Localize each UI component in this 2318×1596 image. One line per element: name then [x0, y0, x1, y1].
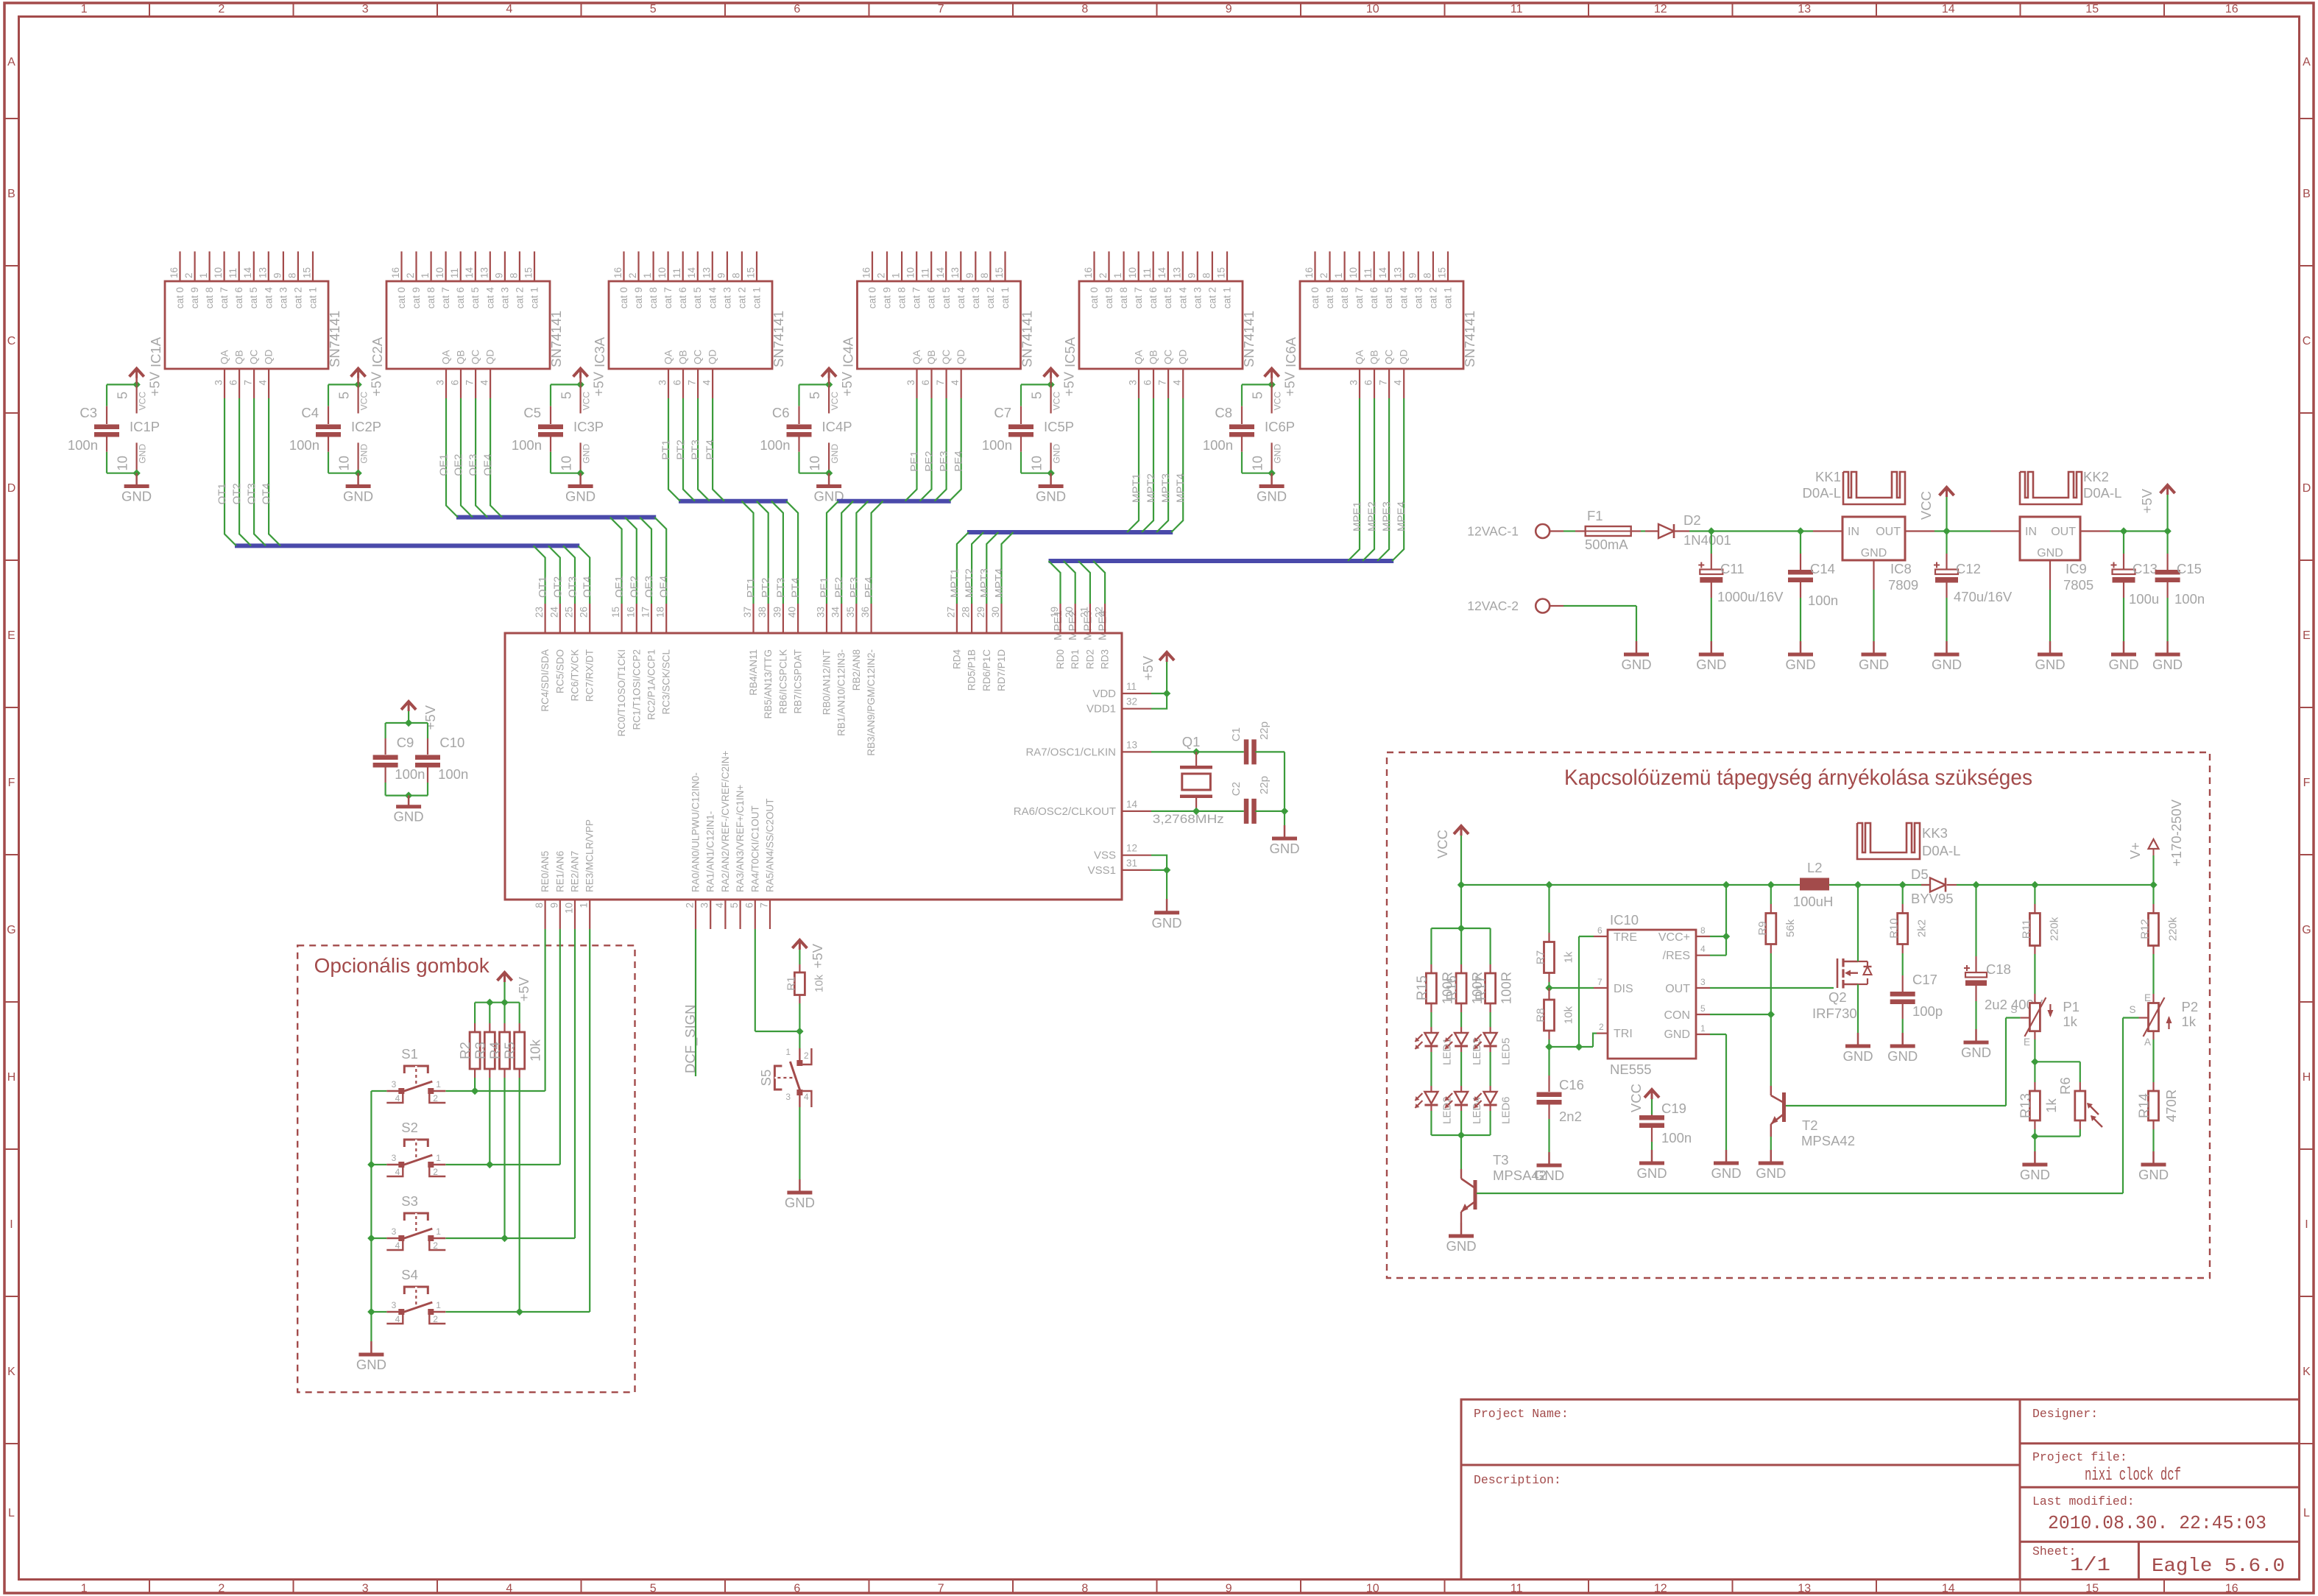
- svg-text:RC5/SDO: RC5/SDO: [554, 649, 565, 693]
- MCU U1 PIC18F (main microcontroller): [505, 633, 1122, 900]
- svg-text:7809: 7809: [1888, 577, 1918, 593]
- svg-text:VCC: VCC: [1918, 491, 1934, 520]
- transistor T2 MPSA42: [1770, 1086, 1772, 1095]
- svg-text:cat 0: cat 0: [1089, 287, 1100, 308]
- wire C1 to C2 right leg: [1255, 751, 1285, 752]
- svg-text:1N4001: 1N4001: [1683, 532, 1731, 548]
- svg-text:4: 4: [702, 380, 713, 386]
- svg-text:IC5P: IC5P: [1044, 419, 1074, 434]
- wire TRE feedback: [1578, 936, 1580, 1047]
- IC10 pin 7 DIS: [1594, 987, 1608, 989]
- svg-text:R10: R10: [1888, 918, 1901, 939]
- svg-text:P2: P2: [2182, 999, 2199, 1014]
- svg-text:14: 14: [464, 266, 475, 278]
- wire OE2 from IC2A QB: [461, 398, 473, 518]
- wire IC8 OUT to VCC node: [1905, 530, 1934, 532]
- wire MPE4 from IC6A QD: [1392, 398, 1404, 561]
- svg-text:E: E: [7, 629, 15, 642]
- svg-text:1k: 1k: [2063, 1014, 2077, 1029]
- svg-text:6: 6: [1597, 925, 1603, 936]
- svg-text:6: 6: [743, 903, 755, 908]
- wire pin13 OSC1 to crystal Q1: [1151, 751, 1244, 752]
- resistor R11 220k: [2034, 885, 2035, 904]
- svg-text:cat 4: cat 4: [1398, 287, 1409, 309]
- svg-text:cat 6: cat 6: [926, 287, 937, 308]
- MCU bottom pin 7 RA5/AN4/SS/C2OUT: [769, 900, 771, 929]
- dashed box Opcionalis gombok: [297, 945, 635, 1392]
- svg-text:10: 10: [213, 267, 224, 278]
- svg-text:15: 15: [746, 267, 757, 278]
- svg-text:OE2: OE2: [628, 576, 640, 598]
- wire PT1 from IC3A QA: [668, 398, 680, 501]
- MCU top pin 17 RC2/P1A/CCP1: [651, 604, 652, 633]
- svg-text:13: 13: [1171, 267, 1182, 278]
- svg-text:10: 10: [657, 267, 668, 278]
- voltage regulator IC8 7809: [1813, 530, 1842, 532]
- switch S4: [386, 1311, 400, 1313]
- svg-text:cat 6: cat 6: [1368, 287, 1379, 308]
- wire OT4 from IC1A QD: [269, 398, 280, 545]
- svg-text:+5V: +5V: [591, 371, 607, 396]
- svg-text:3: 3: [213, 380, 225, 386]
- svg-text:cat 3: cat 3: [970, 287, 981, 308]
- svg-text:16: 16: [625, 607, 636, 618]
- svg-text:5: 5: [807, 392, 822, 399]
- wire MPE4 to MCU pin 22: [1093, 561, 1105, 604]
- MCU top pin 18 RC3/SCK/SCL: [665, 604, 667, 633]
- svg-text:IC1P: IC1P: [130, 419, 160, 434]
- svg-text:OT3: OT3: [567, 576, 579, 598]
- bus PT1..PT4 (blue): [679, 499, 788, 504]
- svg-text:1k: 1k: [2043, 1098, 2059, 1112]
- svg-text:15: 15: [994, 267, 1005, 278]
- node +5V junction IC3P: [576, 381, 584, 388]
- MCU bottom pin 6 RA4/T0CKI/C1OUT: [755, 900, 756, 929]
- svg-text:cat 4: cat 4: [484, 287, 495, 309]
- svg-text:KK1: KK1: [1815, 469, 1841, 484]
- svg-text:L2: L2: [1807, 860, 1823, 875]
- svg-text:GND: GND: [1932, 657, 1962, 672]
- svg-text:cat 9: cat 9: [633, 287, 644, 308]
- node +5V junction IC1P: [132, 381, 140, 388]
- frame column ticks and numbers: [149, 3, 150, 17]
- svg-text:11: 11: [671, 268, 682, 278]
- svg-text:3: 3: [392, 1153, 397, 1163]
- svg-text:Kapcsolóüzemü tápegység árnyék: Kapcsolóüzemü tápegység árnyékolása szük…: [1564, 766, 2032, 790]
- svg-text:cat 1: cat 1: [752, 287, 763, 308]
- svg-text:PE3: PE3: [848, 577, 861, 598]
- potentiometer P1 1k: [2034, 954, 2035, 994]
- svg-text:cat 2: cat 2: [736, 287, 747, 308]
- svg-text:cat 7: cat 7: [219, 287, 230, 308]
- svg-text:12VAC-2: 12VAC-2: [1467, 598, 1519, 613]
- ground symbol for C17: [1901, 1033, 1904, 1046]
- svg-text:PT3: PT3: [774, 577, 787, 598]
- wire OE1 from IC2A QA: [446, 398, 458, 518]
- svg-text:2: 2: [804, 1051, 809, 1061]
- pin 10 GND of IC3P: [579, 442, 581, 473]
- svg-text:1: 1: [642, 272, 653, 278]
- svg-text:SN74141: SN74141: [548, 311, 564, 367]
- svg-text:4: 4: [506, 3, 512, 15]
- svg-text:8: 8: [979, 272, 990, 278]
- svg-text:cat 8: cat 8: [204, 287, 215, 308]
- MCU top pin 30 RD7/P1D: [1000, 604, 1002, 633]
- svg-text:+5V: +5V: [839, 371, 855, 396]
- wire P2 wiper to T3 base: [2123, 1017, 2139, 1018]
- svg-text:C1: C1: [1230, 727, 1243, 741]
- svg-text:2: 2: [218, 1583, 225, 1595]
- wire 12VAC-2 to GND: [1563, 605, 1636, 607]
- svg-text:cat 1: cat 1: [1000, 287, 1011, 308]
- svg-text:RC1/T1OSI/CCP2: RC1/T1OSI/CCP2: [631, 649, 642, 730]
- svg-text:VSS1: VSS1: [1088, 864, 1116, 877]
- MCU top pin 23 RC4/SDI/SDA: [544, 604, 545, 633]
- svg-text:GND: GND: [2108, 657, 2138, 672]
- MCU bottom pin 5 RA3/AN3/VREF+/C1IN+: [739, 900, 741, 929]
- svg-text:D: D: [2303, 482, 2311, 495]
- svg-text:33: 33: [816, 607, 827, 618]
- svg-text:RB2/AN8: RB2/AN8: [851, 649, 862, 691]
- svg-text:E: E: [2144, 992, 2151, 1003]
- svg-text:A: A: [2303, 56, 2311, 68]
- svg-text:L: L: [8, 1507, 15, 1519]
- IC10 pin 8 VCC+: [1696, 936, 1710, 937]
- wire PT4 from IC3A QD: [713, 398, 724, 501]
- svg-text:2n2: 2n2: [1559, 1109, 1582, 1124]
- svg-text:+5V: +5V: [369, 371, 384, 396]
- wire +5V to C9 and C10: [386, 722, 428, 724]
- svg-text:cat 8: cat 8: [1339, 287, 1350, 308]
- ground symbol for IC3P: [579, 473, 582, 485]
- capacitor C15 100n: [2167, 532, 2169, 554]
- svg-text:cat 5: cat 5: [1162, 287, 1173, 308]
- svg-text:29: 29: [975, 607, 986, 618]
- svg-text:1k: 1k: [1563, 951, 1575, 963]
- title block frame: [1461, 1399, 2300, 1580]
- svg-text:C11: C11: [1720, 561, 1745, 576]
- svg-text:4: 4: [479, 380, 490, 386]
- svg-text:7: 7: [243, 380, 254, 386]
- svg-text:10k: 10k: [813, 974, 825, 992]
- svg-text:10: 10: [807, 456, 822, 471]
- svg-text:cat 3: cat 3: [721, 287, 732, 308]
- MCU right pin 14 RA6/OSC2/CLKOUT: [1122, 811, 1151, 812]
- svg-text:17: 17: [640, 607, 651, 618]
- wire IC10 GND pin to ground: [1710, 1034, 1726, 1035]
- svg-text:OT3: OT3: [246, 483, 258, 504]
- svg-text:RA4/T0CKI/C1OUT: RA4/T0CKI/C1OUT: [749, 805, 760, 892]
- svg-text:MPE2: MPE2: [1366, 501, 1379, 532]
- LED LED4: [1460, 1052, 1462, 1086]
- wire capacitor C7 to GND: [1020, 452, 1022, 473]
- svg-text:PE1: PE1: [908, 451, 921, 471]
- svg-text:6: 6: [794, 3, 800, 15]
- svg-text:DCF_SIGN: DCF_SIGN: [682, 1004, 699, 1073]
- wire +5V to capacitor C3: [107, 384, 137, 385]
- svg-text:3: 3: [1349, 380, 1360, 386]
- svg-text:4: 4: [395, 1240, 400, 1251]
- resistor R1 10k: [799, 964, 800, 972]
- svg-text:C6: C6: [772, 405, 790, 420]
- potentiometer P2 1k: [2152, 954, 2154, 994]
- wire +5V to capacitor C8: [1242, 384, 1272, 385]
- svg-text:RA6/OSC2/CLKOUT: RA6/OSC2/CLKOUT: [1014, 805, 1116, 818]
- svg-text:R11: R11: [2020, 919, 2032, 939]
- capacitor C9 100n: [384, 738, 386, 755]
- svg-text:14: 14: [1126, 799, 1138, 810]
- svg-text:GND: GND: [1534, 1168, 1564, 1183]
- svg-text:C2: C2: [1230, 782, 1243, 796]
- svg-text:QC: QC: [941, 349, 952, 364]
- svg-text:6: 6: [1363, 380, 1374, 386]
- capacitor C8 100n: [1241, 406, 1243, 424]
- svg-text:9: 9: [964, 272, 975, 278]
- svg-text:cat 4: cat 4: [263, 287, 274, 309]
- ground symbol for C14: [1800, 641, 1802, 654]
- wire OT1 from IC1A QA: [225, 398, 236, 545]
- svg-text:100n: 100n: [1203, 437, 1233, 453]
- ground symbol for R14: [2152, 1151, 2155, 1165]
- svg-text:cat 8: cat 8: [648, 287, 659, 308]
- svg-text:19: 19: [1049, 607, 1060, 618]
- svg-text:C17: C17: [1912, 972, 1937, 987]
- svg-text:E: E: [2024, 1037, 2030, 1048]
- svg-text:470R: 470R: [2163, 1090, 2179, 1122]
- svg-text:R5: R5: [502, 1042, 517, 1059]
- svg-text:PT4: PT4: [790, 577, 802, 598]
- svg-text:R12: R12: [2139, 919, 2152, 939]
- svg-text:V+: V+: [2127, 842, 2143, 859]
- svg-text:OT2: OT2: [551, 576, 564, 598]
- svg-text:23: 23: [534, 607, 545, 618]
- power +5V flag for MCU VDD: [1159, 652, 1174, 660]
- svg-text:100R: 100R: [1499, 972, 1514, 1004]
- svg-text:1: 1: [1333, 272, 1344, 278]
- svg-text:3: 3: [657, 380, 668, 386]
- svg-text:GND: GND: [1269, 841, 1299, 856]
- svg-text:cat 7: cat 7: [1354, 287, 1365, 308]
- svg-text:12: 12: [1126, 843, 1137, 854]
- svg-text:Designer:: Designer:: [2032, 1407, 2098, 1421]
- svg-text:16: 16: [2225, 1583, 2239, 1595]
- svg-text:+5V: +5V: [1140, 655, 1156, 680]
- node GND junction IC3P: [576, 470, 584, 477]
- ground symbol for IC2P: [357, 473, 359, 485]
- svg-text:2k2: 2k2: [1916, 919, 1929, 937]
- svg-text:cat 1: cat 1: [529, 287, 540, 308]
- wire S5 to GND: [799, 1107, 800, 1179]
- svg-text:RC7/RX/DT: RC7/RX/DT: [584, 649, 596, 702]
- svg-text:BYV95: BYV95: [1911, 891, 1954, 906]
- MCU bottom pin 4 RA2/AN2/VREF-/CVREF/C2IN+: [724, 900, 726, 929]
- power +5V flag for IC1A: [130, 369, 144, 377]
- svg-text:4: 4: [395, 1314, 400, 1324]
- svg-text:4: 4: [714, 903, 725, 908]
- wire pin8/pin4 to VCC rail: [1710, 936, 1726, 937]
- svg-text:cat 2: cat 2: [1427, 287, 1438, 308]
- svg-text:7: 7: [935, 380, 946, 386]
- MCU bottom pin 3 RA1/AN1/C12IN1-: [710, 900, 711, 929]
- pin 10 GND of IC1P: [136, 442, 138, 473]
- svg-text:QC: QC: [249, 349, 260, 364]
- svg-text:cat 6: cat 6: [677, 287, 688, 308]
- svg-text:25: 25: [564, 607, 575, 618]
- svg-text:PT3: PT3: [690, 439, 702, 460]
- wire S2 row: [371, 1164, 386, 1165]
- svg-text:cat 0: cat 0: [618, 287, 629, 308]
- svg-text:2: 2: [1599, 1022, 1604, 1032]
- ground symbol for IC5P: [1050, 473, 1052, 485]
- svg-text:B: B: [7, 188, 15, 200]
- svg-text:R17: R17: [1473, 975, 1488, 1000]
- svg-text:GND: GND: [785, 1195, 815, 1210]
- IC IC3A SN74141 nixie driver: [609, 281, 772, 369]
- svg-text:RE3/MCLR/VPP: RE3/MCLR/VPP: [584, 819, 596, 892]
- svg-text:RE1/AN6: RE1/AN6: [554, 851, 565, 892]
- MCU top pin 15 RC0/T1OSO/T1CKI: [621, 604, 622, 633]
- wire F1 to D2: [1641, 530, 1645, 532]
- svg-text:4: 4: [804, 1092, 809, 1102]
- heatsink KK1 D0A-L: [1843, 472, 1905, 504]
- svg-text:RD5/P1B: RD5/P1B: [967, 649, 978, 691]
- wire PE3 from IC4A QC: [935, 398, 947, 501]
- svg-text:S1: S1: [401, 1046, 418, 1062]
- svg-text:Last modified:: Last modified:: [2032, 1494, 2135, 1508]
- svg-text:D0A-L: D0A-L: [1922, 843, 1960, 858]
- svg-text:22p: 22p: [1258, 776, 1271, 794]
- svg-text:QC: QC: [1163, 349, 1174, 364]
- svg-text:RB6/ICSPCLK: RB6/ICSPCLK: [777, 649, 788, 714]
- wire PE4 to MCU pin 36: [872, 501, 883, 604]
- svg-text:MPE3: MPE3: [1381, 501, 1393, 532]
- svg-text:nixi clock dcf: nixi clock dcf: [2085, 1466, 2181, 1486]
- wire OT4 to MCU pin 26: [578, 545, 590, 604]
- svg-text:E: E: [2303, 629, 2311, 642]
- svg-text:VCC: VCC: [582, 392, 592, 411]
- svg-text:2: 2: [433, 1240, 438, 1251]
- svg-text:cat 0: cat 0: [867, 287, 878, 308]
- MCU top pin 38 RB5/AN13/TTG: [768, 604, 769, 633]
- capacitor C5 100n: [550, 406, 551, 424]
- svg-text:11: 11: [920, 268, 931, 278]
- pin 5 VCC of IC6P: [1271, 378, 1273, 384]
- svg-text:36: 36: [860, 607, 871, 618]
- svg-text:12: 12: [1654, 3, 1667, 15]
- svg-text:RD0: RD0: [1055, 649, 1066, 669]
- IC10 pin 1 GND: [1696, 1034, 1710, 1035]
- svg-text:SN74141: SN74141: [1020, 311, 1035, 367]
- wire C14 to IC8 IN: [1801, 530, 1813, 532]
- wire VSS to GND: [1151, 855, 1167, 870]
- MCU top pin 26 RC7/RX/DT: [589, 604, 590, 633]
- svg-text:7: 7: [938, 1583, 944, 1595]
- svg-text:1: 1: [579, 903, 590, 908]
- svg-text:RD3: RD3: [1100, 649, 1111, 669]
- svg-text:cat 2: cat 2: [985, 287, 996, 308]
- capacitor C14 100n: [1800, 532, 1801, 554]
- svg-text:5: 5: [336, 392, 352, 399]
- svg-text:100n: 100n: [438, 766, 468, 782]
- ground symbol for IC4P: [828, 473, 830, 485]
- wire MPE2 from IC6A QB: [1363, 398, 1374, 561]
- svg-text:2: 2: [405, 272, 416, 278]
- svg-text:16: 16: [1083, 267, 1094, 278]
- svg-text:6: 6: [1142, 380, 1153, 386]
- wire T3 base to P2 wiper: [1477, 1193, 2123, 1194]
- svg-text:SN74141: SN74141: [1462, 311, 1477, 367]
- svg-text:QA: QA: [219, 350, 230, 364]
- svg-text:GND: GND: [2037, 547, 2063, 559]
- wire R14 to ground: [2152, 1129, 2154, 1151]
- svg-text:R14: R14: [2136, 1093, 2152, 1118]
- svg-text:R4: R4: [487, 1042, 503, 1059]
- ground symbol for IC1P: [135, 473, 138, 485]
- wire Q2 source to ground: [1857, 984, 1859, 1033]
- wire PT4 to MCU pin 40: [786, 501, 798, 604]
- svg-text:3: 3: [392, 1226, 397, 1237]
- svg-text:13: 13: [478, 267, 490, 278]
- svg-text:IC1A: IC1A: [148, 336, 163, 367]
- node GND junction IC4P: [825, 470, 833, 477]
- svg-text:cat 9: cat 9: [882, 287, 893, 308]
- svg-text:100n: 100n: [289, 437, 319, 453]
- svg-text:RB5/AN13/TTG: RB5/AN13/TTG: [763, 649, 774, 719]
- bus MPT1..MPT4 (blue): [967, 530, 1173, 534]
- svg-text:QD: QD: [1399, 349, 1410, 364]
- svg-text:7: 7: [1378, 380, 1389, 386]
- svg-text:15: 15: [302, 267, 313, 278]
- connector pad 12VAC-1: [1536, 524, 1550, 538]
- svg-text:cat 6: cat 6: [455, 287, 466, 308]
- svg-text:OUT: OUT: [1876, 526, 1901, 538]
- svg-text:VCC: VCC: [830, 392, 840, 411]
- svg-text:VCC: VCC: [1628, 1084, 1644, 1112]
- svg-text:VCC: VCC: [138, 392, 148, 411]
- wire PE4 from IC4A QD: [950, 398, 961, 501]
- svg-text:RD2: RD2: [1084, 649, 1095, 669]
- switch S5: [799, 1031, 800, 1048]
- svg-text:500mA: 500mA: [1585, 537, 1628, 552]
- svg-text:LED5: LED5: [1500, 1037, 1513, 1065]
- svg-text:22: 22: [1094, 607, 1105, 618]
- svg-text:IC5A: IC5A: [1062, 336, 1078, 367]
- svg-text:6: 6: [794, 1583, 800, 1595]
- svg-text:VCC+: VCC+: [1658, 931, 1690, 944]
- svg-text:T3: T3: [1493, 1152, 1509, 1168]
- svg-text:GND: GND: [1052, 444, 1062, 464]
- svg-text:9: 9: [1407, 272, 1418, 278]
- svg-text:14: 14: [935, 266, 946, 278]
- wire MCU pin 1 to S4: [589, 929, 590, 1312]
- svg-text:GND: GND: [1961, 1045, 1991, 1060]
- IC10 pin 6 TRE: [1594, 936, 1608, 937]
- resistor R7 1k: [1548, 885, 1550, 933]
- svg-text:GND: GND: [394, 809, 424, 825]
- wire PE1 from IC4A QA: [905, 398, 917, 501]
- svg-text:NE555: NE555: [1610, 1062, 1652, 1077]
- svg-text:100u: 100u: [2129, 591, 2159, 607]
- svg-text:12VAC-1: 12VAC-1: [1467, 524, 1519, 539]
- svg-text:7: 7: [464, 380, 476, 386]
- svg-text:D: D: [7, 482, 16, 495]
- wire MPT3 from IC5A QC: [1156, 398, 1168, 532]
- wire T2 base to P1 wiper: [1786, 1105, 2006, 1106]
- svg-text:S: S: [2010, 1004, 2017, 1015]
- svg-text:F1: F1: [1587, 508, 1603, 523]
- svg-text:2: 2: [433, 1093, 438, 1104]
- svg-text:21: 21: [1078, 607, 1089, 618]
